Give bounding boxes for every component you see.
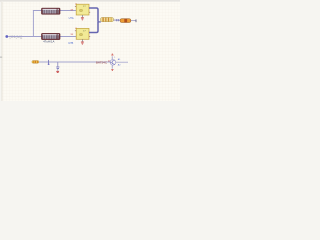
pin label U1 pin1: [70, 10, 73, 12]
svg-text:1N: 1N: [70, 10, 73, 12]
wire: bottom branch horizontal: [8, 36, 76, 38]
ground flag (red) under C2: [56, 71, 59, 73]
wire: top branch horizontal: [33, 10, 76, 12]
U1 bottom pin stub: [81, 15, 83, 17]
diode D1 (BAT54C): [110, 60, 116, 66]
capacitor C2 drop: [56, 62, 59, 70]
value label BAT54C: [96, 60, 108, 64]
wire: bottom rail: [39, 61, 110, 63]
fuse F1 (orange body): [120, 19, 131, 23]
inductor L1: [41, 8, 60, 14]
sheet background: [0, 0, 180, 101]
chain end tick: [135, 19, 138, 22]
thick wire from U2 output: [89, 22, 98, 33]
wire: output chain right: [113, 19, 135, 21]
ground flag (red) under U2: [81, 42, 84, 45]
D1 top pin: [111, 56, 113, 59]
capacitor mark C?: [116, 19, 118, 21]
terminal net label C3(M): [10, 35, 23, 39]
op IC U2: [75, 28, 90, 39]
inductor L2: [41, 33, 60, 39]
svg-text:1N: 1N: [70, 34, 73, 36]
power flag (red) above D1: [111, 54, 113, 56]
svg-text:U?A: U?A: [69, 16, 74, 20]
pin label U2 pin1: [70, 34, 73, 36]
U2 bottom pin stub: [81, 39, 83, 41]
svg-text:U?B: U?B: [68, 41, 73, 45]
terminal CN1: [5, 35, 8, 38]
wire: vertical branch split: [32, 11, 34, 38]
U1 corner mark: [75, 3, 77, 6]
resistor R1: [100, 17, 113, 21]
ground flag (red) under U1: [81, 17, 84, 20]
ref text U?B: [68, 41, 73, 45]
test point / cap C1: [48, 60, 50, 65]
resistor R2 (small): [32, 61, 39, 64]
wire: output chain: [98, 21, 101, 23]
svg-text:BAT54C: BAT54C: [96, 60, 108, 64]
pin text A1: [118, 58, 121, 61]
svg-text:47uH/1A: 47uH/1A: [43, 40, 54, 44]
ref text U?A: [69, 16, 74, 20]
thick wire from U1 output: [89, 8, 98, 22]
left ruler tick: [0, 56, 2, 58]
pin text A2: [118, 64, 121, 67]
D1 bottom pin: [111, 65, 113, 69]
ground flag (red) below D1: [111, 69, 113, 71]
value label 47uH: [43, 40, 54, 44]
wire: D1 output right: [116, 61, 128, 63]
pin text top: [114, 57, 116, 59]
U2 corner mark: [75, 27, 77, 30]
op IC U1: [75, 4, 90, 15]
D1 pin number tick: [108, 60, 109, 63]
